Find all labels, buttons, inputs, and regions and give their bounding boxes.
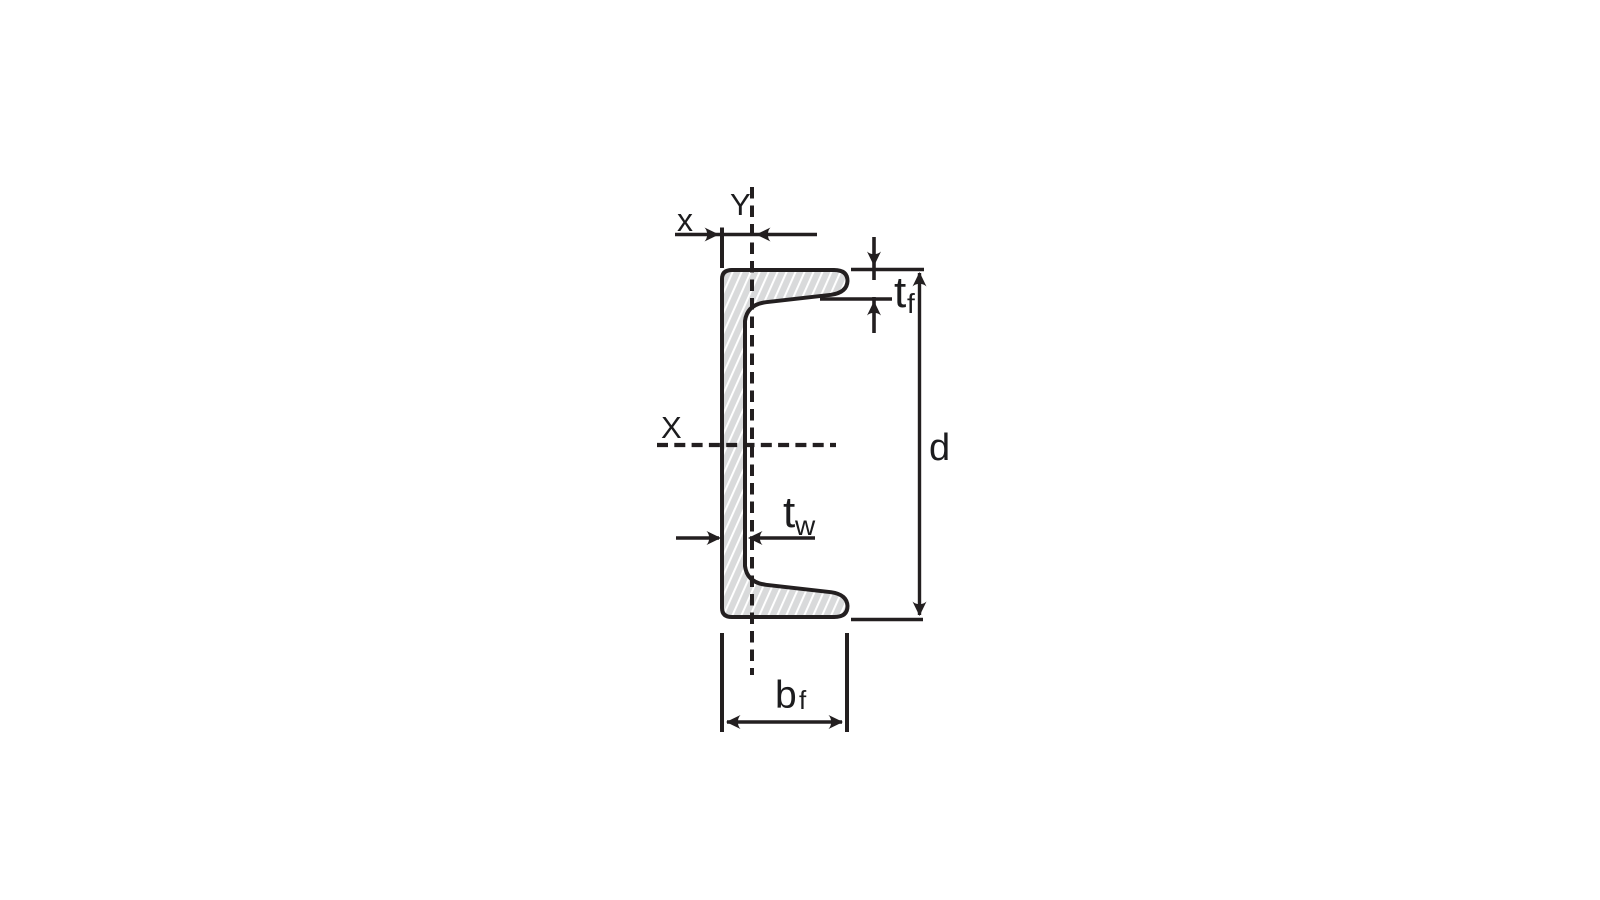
svg-text:w: w bbox=[794, 510, 816, 541]
svg-text:f: f bbox=[907, 288, 915, 319]
svg-text:X: X bbox=[661, 410, 682, 445]
svg-text:Y: Y bbox=[730, 187, 751, 222]
svg-text:f: f bbox=[799, 685, 807, 715]
svg-text:b: b bbox=[775, 674, 797, 717]
svg-text:d: d bbox=[929, 427, 950, 469]
svg-text:t: t bbox=[894, 268, 906, 317]
svg-text:x: x bbox=[677, 202, 693, 238]
svg-text:t: t bbox=[783, 488, 795, 537]
